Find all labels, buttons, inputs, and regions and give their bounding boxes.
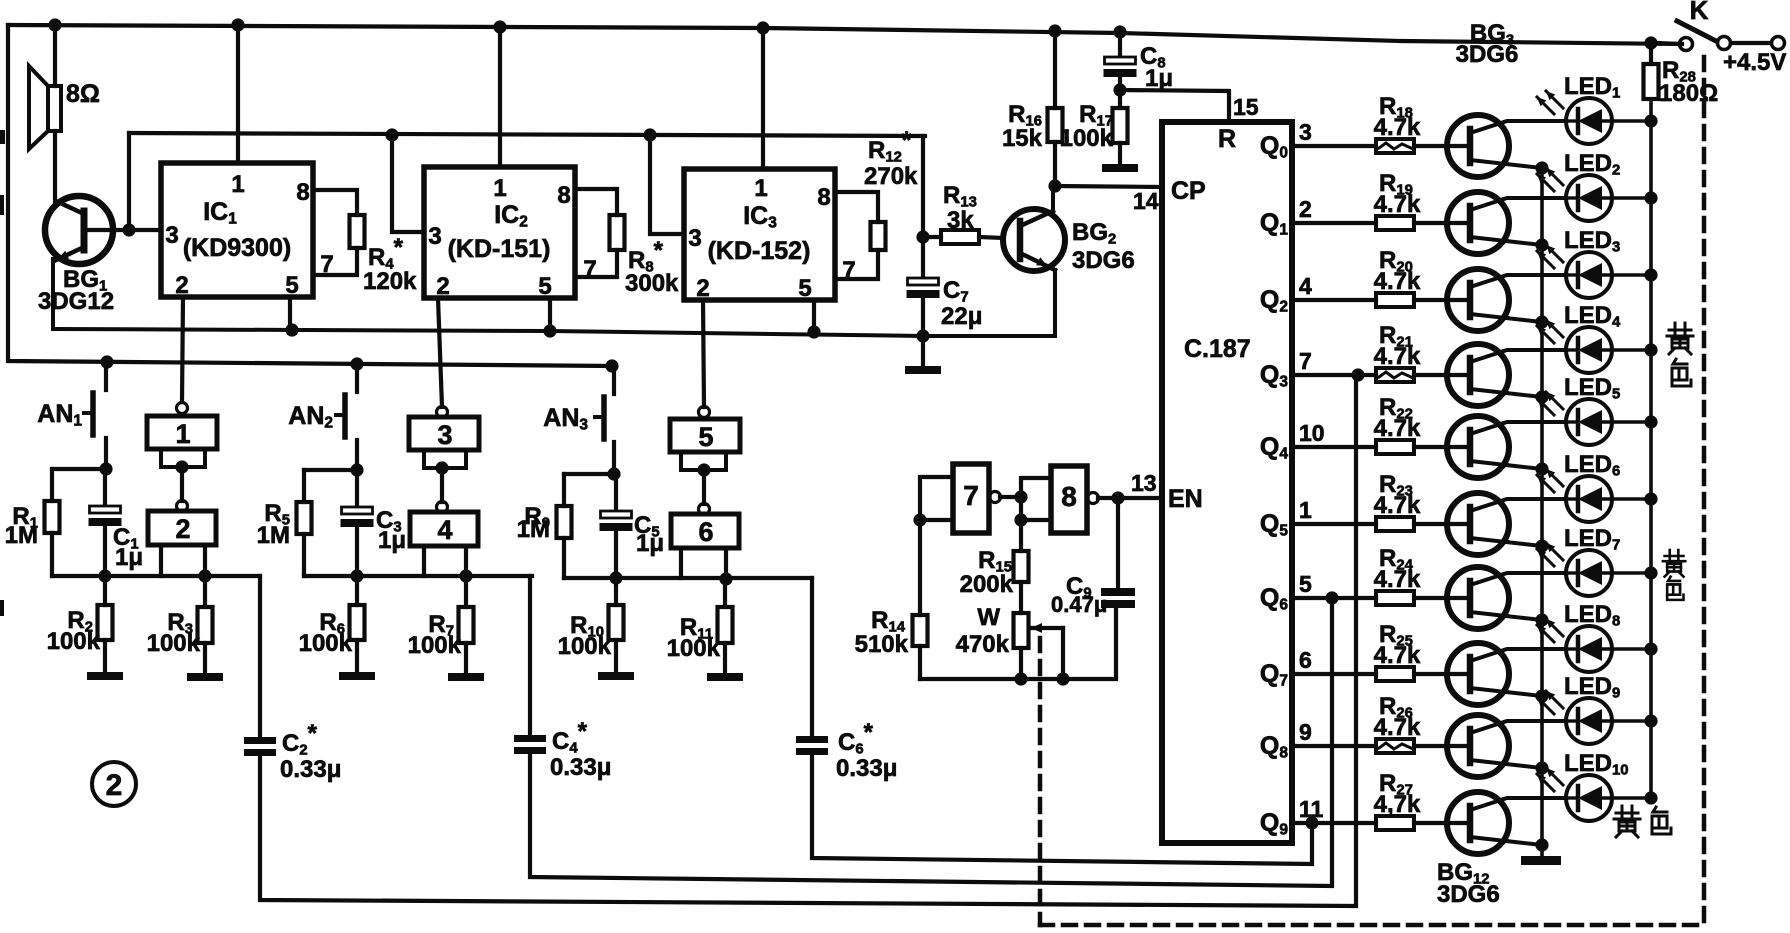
svg-text:1μ: 1μ <box>378 527 406 554</box>
node emitter-bus junction <box>1535 613 1548 626</box>
wire IC3 pin5 <box>812 300 816 332</box>
wire gate7 inputs <box>920 477 953 615</box>
node key 3 <box>435 461 448 474</box>
svg-text:3DG6: 3DG6 <box>1437 881 1500 908</box>
node emitter-bus junction <box>1535 838 1548 851</box>
svg-text:AN2: AN2 <box>288 402 333 431</box>
left border wire <box>8 25 612 366</box>
svg-text:4.7k: 4.7k <box>1374 114 1421 141</box>
node anode rail junction <box>1644 191 1657 204</box>
key plate under 1 <box>161 449 205 467</box>
svg-text:100k: 100k <box>408 632 462 659</box>
svg-text:3k: 3k <box>947 207 974 234</box>
wire Q1 output lead <box>1292 221 1376 225</box>
transistor BG6 3DG6 <box>1447 344 1564 406</box>
svg-text:1M: 1M <box>257 522 290 549</box>
svg-text:BG2: BG2 <box>1072 219 1116 247</box>
ground at C7 <box>905 336 941 374</box>
capacitor C1 1u <box>89 469 144 576</box>
resistor R15 200k <box>960 547 1029 613</box>
resistor R8* 300k <box>575 189 679 297</box>
LED4 light arrows <box>1537 320 1563 343</box>
key contact 5 <box>670 407 740 453</box>
node C9 top <box>1111 491 1124 504</box>
svg-text:+4.5V: +4.5V <box>1723 49 1786 76</box>
svg-text:15: 15 <box>1233 94 1259 120</box>
LED6 <box>1566 476 1651 522</box>
key contact 6 <box>671 504 739 549</box>
svg-text:LED2: LED2 <box>1564 150 1620 178</box>
svg-text:470k: 470k <box>956 631 1010 658</box>
svg-text:C.187: C.187 <box>1184 335 1251 363</box>
transistor BG11 3DG6 <box>1447 715 1564 777</box>
wire Q9 output lead <box>1292 821 1376 825</box>
LED2 light arrows <box>1537 168 1563 191</box>
capacitor C7 22u <box>907 237 983 336</box>
resistor R27 4.7k <box>1374 770 1470 830</box>
svg-text:C7: C7 <box>943 277 969 305</box>
svg-text:510k: 510k <box>855 631 909 658</box>
svg-text:0.33μ: 0.33μ <box>280 756 341 783</box>
wire C4 to Q6 <box>530 598 1332 886</box>
svg-text:15k: 15k <box>1002 125 1043 152</box>
node emitter-bus junction <box>1535 539 1548 552</box>
svg-text:Q7: Q7 <box>1260 660 1288 689</box>
label yellow (huang-se) horizontal <box>1614 806 1671 837</box>
svg-text:7: 7 <box>1299 348 1312 374</box>
svg-text:100k: 100k <box>147 630 201 657</box>
resistor R4* 120k <box>313 190 417 295</box>
svg-text:120k: 120k <box>363 268 417 295</box>
wire Q5 output lead <box>1292 522 1376 526</box>
svg-text:0.47μ: 0.47μ <box>1051 592 1107 617</box>
switch K <box>1657 0 1786 76</box>
wire Q7 output lead <box>1292 672 1376 676</box>
svg-text:(KD-151): (KD-151) <box>448 235 551 263</box>
resistor R6 100k <box>299 577 365 672</box>
LED4 <box>1566 327 1651 373</box>
svg-text:8: 8 <box>1061 481 1077 512</box>
svg-text:13: 13 <box>1131 470 1157 496</box>
svg-text:Q4: Q4 <box>1260 433 1288 462</box>
key contact 4 <box>410 502 478 547</box>
svg-text:LED8: LED8 <box>1564 601 1620 629</box>
resistor R26 4.7k <box>1374 693 1470 753</box>
scan edge marks <box>0 130 5 144</box>
svg-text:4: 4 <box>437 515 452 545</box>
LED9 <box>1566 698 1651 744</box>
resistor R3 100k <box>147 578 213 673</box>
node anode rail junction <box>1644 791 1657 804</box>
svg-text:R4*: R4* <box>368 234 404 272</box>
svg-text:180Ω: 180Ω <box>1659 80 1718 107</box>
node rail junctions <box>285 323 298 336</box>
svg-text:8: 8 <box>296 179 309 206</box>
node key 1 <box>175 460 188 473</box>
node W bottom <box>1014 672 1027 685</box>
key contact 2 <box>148 501 216 546</box>
svg-text:LED9: LED9 <box>1564 673 1620 701</box>
svg-text:100k: 100k <box>667 635 721 662</box>
wire Q4 output lead <box>1292 445 1376 449</box>
svg-text:4.7k: 4.7k <box>1374 566 1421 593</box>
node emitter-bus junction <box>1535 689 1548 702</box>
wire gate7 out to gate8 in <box>1000 478 1051 551</box>
svg-text:AN3: AN3 <box>543 404 588 433</box>
wire key 2 legs <box>161 545 205 576</box>
node anode rail junction <box>1644 492 1657 505</box>
BG12 label <box>1437 859 1500 908</box>
node R7 top <box>459 569 472 582</box>
node: top rail junctions <box>48 18 61 31</box>
wire bottom rail AN1 <box>52 574 260 578</box>
svg-text:3: 3 <box>437 420 452 450</box>
resistor R13 3k <box>923 182 1003 244</box>
svg-text:IC2: IC2 <box>494 201 528 230</box>
svg-text:270k: 270k <box>864 163 918 190</box>
LED3 <box>1566 252 1651 298</box>
ground at R6 <box>339 672 375 680</box>
svg-text:22μ: 22μ <box>941 303 982 330</box>
svg-text:4,7k: 4,7k <box>1374 791 1421 818</box>
svg-text:4.7k: 4.7k <box>1374 343 1421 370</box>
node bus tap IC2 <box>385 128 398 141</box>
capacitor C9 0.47u <box>1051 498 1135 617</box>
ground at R3 <box>187 673 223 681</box>
transistor BG2 3DG6 <box>1003 186 1135 336</box>
speaker 8-ohm <box>29 25 100 201</box>
svg-text:R: R <box>1218 125 1236 153</box>
svg-text:LED5: LED5 <box>1564 374 1620 402</box>
svg-text:100k: 100k <box>1060 125 1114 152</box>
svg-text:4.7k: 4.7k <box>1374 415 1421 442</box>
svg-text:200k: 200k <box>960 571 1014 598</box>
top +V rail <box>8 25 1682 44</box>
svg-text:1μ: 1μ <box>115 544 143 571</box>
wire CP to C.187 pin14 <box>1055 186 1162 187</box>
node anode rail junction <box>1644 268 1657 281</box>
svg-text:5: 5 <box>698 422 713 452</box>
IC3 KD-152 <box>684 28 856 302</box>
node anode rail junction <box>1644 343 1657 356</box>
svg-text:5: 5 <box>798 275 811 302</box>
svg-text:3DG6: 3DG6 <box>1072 247 1135 274</box>
svg-text:3: 3 <box>165 222 178 249</box>
svg-text:Q6: Q6 <box>1260 584 1288 613</box>
resistor R1 1M <box>5 469 60 576</box>
node anode rail junction <box>1644 642 1657 655</box>
svg-text:100k: 100k <box>558 633 612 660</box>
svg-text:LED1: LED1 <box>1564 73 1620 101</box>
svg-text:1: 1 <box>493 175 506 202</box>
wire Q6 output lead <box>1292 596 1376 600</box>
transistor BG3 3DG6 <box>1447 115 1564 177</box>
svg-text:LED10: LED10 <box>1564 750 1629 778</box>
wire base bus (BG1 base / IC pin-3 bus) <box>129 133 925 237</box>
resistor R5 1M <box>257 470 312 576</box>
capacitor C4* 0.33u <box>514 576 611 781</box>
resistor R9 1M <box>517 474 572 578</box>
svg-text:3: 3 <box>1299 119 1312 145</box>
wire key 4 legs <box>424 546 466 576</box>
svg-text:LED4: LED4 <box>1564 302 1621 330</box>
svg-text:4.7k: 4.7k <box>1374 642 1421 669</box>
wire Q8 output lead <box>1292 744 1376 748</box>
key plate under 5 <box>681 452 726 470</box>
node emitter-bus junction <box>1535 390 1548 403</box>
svg-text:K: K <box>1690 0 1709 25</box>
svg-text:3: 3 <box>428 223 441 250</box>
resistor R19 4.7k <box>1374 170 1470 230</box>
LED7 light arrows <box>1537 543 1563 566</box>
svg-text:5: 5 <box>1299 571 1312 597</box>
wire gate8 out to EN pin13 <box>1098 496 1162 500</box>
svg-text:Q0: Q0 <box>1260 132 1288 161</box>
emitter/ground rail wire <box>53 329 1055 336</box>
svg-text:14: 14 <box>1133 188 1159 214</box>
node key 5 <box>697 463 710 476</box>
wire Q3 output lead <box>1292 373 1376 377</box>
wire C2 to Q3 <box>260 375 1356 906</box>
svg-text:1M: 1M <box>517 516 550 543</box>
LED10 <box>1566 775 1651 821</box>
svg-text:W: W <box>977 604 1000 631</box>
svg-text:(KD-152): (KD-152) <box>708 237 811 265</box>
key contact 1 <box>147 403 217 450</box>
IC2 KD-151 <box>424 27 597 300</box>
svg-text:6: 6 <box>1299 647 1312 673</box>
node R6 top <box>350 569 363 582</box>
wire IC pin2 to key 5 <box>703 300 704 407</box>
svg-text:1: 1 <box>1299 497 1312 523</box>
resistor R25 4.7k <box>1374 621 1470 681</box>
LED3 light arrows <box>1537 245 1563 268</box>
svg-text:8: 8 <box>817 184 830 211</box>
node R11 top <box>719 572 732 585</box>
node emitter-bus junction <box>1535 161 1548 174</box>
label yellow (huang-se) vertical 1 <box>1667 323 1693 386</box>
svg-text:CP: CP <box>1171 177 1206 205</box>
resistor R21 4.7k <box>1374 322 1470 382</box>
transistor BG1 3DG12 <box>38 196 114 329</box>
resistor R22 4.7k <box>1374 394 1470 454</box>
ground at R11 <box>707 673 743 681</box>
resistor R14 510k <box>855 607 928 679</box>
svg-text:9: 9 <box>1299 719 1312 745</box>
resistor R20 4.7k <box>1374 247 1470 307</box>
LED8 <box>1566 626 1651 672</box>
transistor BG4 3DG6 <box>1447 192 1564 254</box>
svg-text:3: 3 <box>688 225 701 252</box>
node R3 top <box>198 569 211 582</box>
wire key link <box>702 470 706 504</box>
node Q6 feedback junction <box>1325 591 1338 604</box>
LED5 light arrows <box>1537 392 1563 415</box>
svg-text:C2*: C2* <box>282 720 318 758</box>
key plate under 3 <box>424 450 466 468</box>
LED8 light arrows <box>1537 619 1563 642</box>
wire bottom rail AN2 <box>304 574 532 578</box>
capacitor C2* 0.33u <box>244 576 341 783</box>
wire AN1 node <box>52 467 106 471</box>
potentiometer W 470k <box>956 604 1063 679</box>
transistor BG9 3DG6 <box>1447 567 1564 629</box>
LED6 light arrows <box>1537 469 1563 492</box>
svg-text:LED6: LED6 <box>1564 451 1620 479</box>
node R10 top <box>609 571 622 584</box>
node gate7 input <box>913 513 926 526</box>
svg-text:4.7k: 4.7k <box>1374 191 1421 218</box>
node AN rail junctions <box>100 355 113 368</box>
LED5 <box>1566 399 1651 445</box>
ground at R7 <box>448 673 484 681</box>
svg-text:3DG12: 3DG12 <box>38 288 114 315</box>
resistor R18 4.7k <box>1374 93 1470 153</box>
resistor R24 4.7k <box>1374 545 1470 605</box>
figure number 2 <box>92 762 136 806</box>
transistor BG5 3DG6 <box>1447 269 1564 331</box>
wire key 6 legs <box>681 548 726 579</box>
resistor R11 100k <box>667 578 733 673</box>
wire C8 node to pin 15 (R) <box>1120 90 1259 122</box>
wire IC1 pin5 <box>288 297 292 330</box>
svg-text:4.7k: 4.7k <box>1374 492 1421 519</box>
svg-text:300k: 300k <box>625 270 679 297</box>
wire IC2 pin5 <box>548 298 552 331</box>
svg-text:0.33μ: 0.33μ <box>550 754 611 781</box>
node anode rail junction <box>1644 714 1657 727</box>
svg-text:IC3: IC3 <box>743 202 777 231</box>
pushbutton AN1 <box>37 362 106 469</box>
key contact 3 <box>409 407 479 451</box>
svg-text:8Ω: 8Ω <box>66 80 100 108</box>
svg-text:IC1: IC1 <box>203 198 237 227</box>
svg-text:6: 6 <box>698 517 713 547</box>
node gate8 input a <box>1014 490 1027 503</box>
svg-text:Q3: Q3 <box>1260 361 1288 390</box>
svg-text:2: 2 <box>1299 196 1312 222</box>
LED9 light arrows <box>1537 691 1563 714</box>
svg-text:4: 4 <box>1299 273 1312 299</box>
svg-text:2: 2 <box>106 769 123 802</box>
svg-text:Q5: Q5 <box>1260 510 1288 539</box>
svg-text:1μ: 1μ <box>636 530 664 557</box>
node emitter-bus junction <box>1535 315 1548 328</box>
node Q3 feedback junction <box>1351 368 1364 381</box>
resistor R16 15k <box>1002 31 1063 186</box>
svg-text:0.33μ: 0.33μ <box>836 755 897 782</box>
node CP junction <box>1048 179 1061 192</box>
svg-text:1: 1 <box>754 175 767 202</box>
node emitter-bus junction <box>1535 238 1548 251</box>
svg-text:Q2: Q2 <box>1260 286 1288 315</box>
svg-text:LED7: LED7 <box>1564 525 1620 553</box>
capacitor C5 1u <box>600 474 665 578</box>
svg-text:LED3: LED3 <box>1564 227 1620 255</box>
node AN3 junction <box>607 467 620 480</box>
ground at R17 <box>1102 164 1138 172</box>
IC C.187 decade counter <box>1131 122 1292 843</box>
resistor R7 100k <box>408 578 474 673</box>
wire IC pin2 to key 3 <box>438 298 442 407</box>
resistor R17 100k <box>1060 90 1128 164</box>
emitter common bus wire <box>1540 168 1544 856</box>
node C8/R17/pin15 junction <box>1113 83 1126 96</box>
node R2 top <box>98 569 111 582</box>
svg-text:7: 7 <box>963 480 979 511</box>
resistor R2 100k <box>47 577 113 672</box>
svg-text:11: 11 <box>1299 796 1324 822</box>
svg-text:1: 1 <box>231 171 244 198</box>
wire oscillator bottom <box>920 609 1116 679</box>
transistor BG8 3DG6 <box>1447 493 1564 555</box>
node Q9 feedback junction <box>1305 816 1318 829</box>
transistor BG10 3DG6 <box>1447 643 1564 705</box>
ground at emitter bus <box>1521 856 1561 865</box>
LED10 light arrows <box>1537 768 1563 791</box>
svg-text:3DG6: 3DG6 <box>1456 41 1519 68</box>
ground at R10 <box>598 672 634 680</box>
wire bottom rail AN3 <box>564 576 812 580</box>
svg-text:C4*: C4* <box>552 718 588 756</box>
node anode rail junction <box>1644 114 1657 127</box>
node R13/C7 junction <box>916 230 929 243</box>
svg-text:AN1: AN1 <box>37 400 82 429</box>
wire AN2 node <box>304 468 357 472</box>
node W wiper bottom <box>1056 672 1069 685</box>
pushbutton AN3 <box>543 366 614 474</box>
node anode rail junction <box>1644 415 1657 428</box>
wire AN3 node <box>564 472 614 476</box>
gate 8 <box>1051 466 1099 533</box>
transistor BG7 3DG6 <box>1447 416 1564 478</box>
svg-text:4.7k: 4.7k <box>1374 268 1421 295</box>
gate 7 <box>953 464 1001 533</box>
node anode rail junction <box>1644 566 1657 579</box>
svg-text:100k: 100k <box>47 628 101 655</box>
wire Q2 output lead <box>1292 298 1376 302</box>
resistor R23 4.7k <box>1374 471 1470 531</box>
svg-text:(KD9300): (KD9300) <box>183 234 291 262</box>
svg-text:100k: 100k <box>299 630 353 657</box>
capacitor C6* 0.33u <box>796 578 897 782</box>
resistor R10 100k <box>558 577 624 672</box>
node emitter-bus junction <box>1535 462 1548 475</box>
wire key link <box>440 468 444 502</box>
svg-text:8: 8 <box>557 182 570 209</box>
svg-text:2: 2 <box>175 514 190 544</box>
svg-text:4.7k: 4.7k <box>1374 714 1421 741</box>
svg-text:1μ: 1μ <box>1145 65 1173 92</box>
wire IC pin2 to key 1 <box>182 297 183 402</box>
resistor R28 180ohm <box>1644 43 1719 107</box>
node emitter-bus junction <box>1535 761 1548 774</box>
capacitor C3 1u <box>341 470 407 576</box>
LED anode rail wire (from R28) <box>1649 99 1653 798</box>
node bus tap IC3 <box>643 128 656 141</box>
capacitor C8 1u <box>1104 32 1174 92</box>
svg-text:1: 1 <box>175 419 190 449</box>
transistor BG12 3DG6 <box>1447 792 1564 854</box>
ground at R2 <box>87 672 123 680</box>
resistor R12* 270k <box>835 127 918 279</box>
node BG1 base bus tap <box>122 223 135 236</box>
node AN2 junction <box>350 463 363 476</box>
wire Q0 output lead <box>1292 144 1376 148</box>
BG3 label <box>1456 20 1519 68</box>
svg-text:10: 10 <box>1299 420 1325 446</box>
IC1 KD9300 <box>161 25 334 299</box>
